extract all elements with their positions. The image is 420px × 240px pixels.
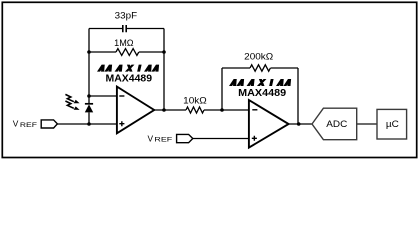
- wire cap left vertical: [88, 29, 90, 53]
- microcontroller uC box: [377, 109, 407, 139]
- svg-text:33pF: 33pF: [115, 11, 138, 21]
- wire right vertical to output node: [163, 52, 165, 110]
- capacitor C1 plates: [123, 25, 126, 32]
- svg-text:REF: REF: [154, 137, 172, 144]
- photodiode D1 anode triangle: [85, 104, 93, 112]
- wire VREF1 to noninverting input: [57, 123, 117, 125]
- node junction photodiode bottom: [87, 122, 91, 126]
- photodiode D1 cathode bar: [85, 103, 93, 105]
- node junction photodiode top: [87, 94, 91, 98]
- wire U1 output: [154, 109, 186, 111]
- node junction feedback2 input: [220, 108, 224, 112]
- wire U2 output: [289, 123, 313, 125]
- svg-text:10kΩ: 10kΩ: [183, 95, 207, 105]
- node junction U2 output: [297, 122, 301, 126]
- VREF tag 2: [177, 134, 193, 142]
- light arrow 1: [65, 94, 73, 101]
- capacitor C1 feedback wire: [89, 28, 164, 30]
- wire cap right vertical: [163, 29, 165, 53]
- wire VREF2 to U2 noninverting input: [193, 138, 249, 140]
- resistor R2 10k zigzag: [186, 107, 204, 113]
- svg-text:V: V: [148, 134, 154, 144]
- op-amp U1 minus sign: [119, 95, 124, 97]
- op-amp U2 plus sign: [252, 136, 257, 141]
- feedback2 top wire: [222, 67, 298, 69]
- svg-text:1MΩ: 1MΩ: [114, 38, 134, 48]
- feedback2 left vertical wire: [221, 68, 223, 110]
- light arrow 2: [65, 101, 73, 108]
- border frame: [2, 2, 416, 157]
- resistor R1 1M wire: [89, 51, 164, 53]
- Maxim logo U1: [97, 65, 159, 72]
- wire ADC to uC: [357, 123, 377, 125]
- wire inverting input U1: [89, 95, 117, 97]
- svg-text:REF: REF: [20, 122, 37, 129]
- node junction right of R1: [162, 50, 166, 54]
- svg-text:MAX4489: MAX4489: [238, 87, 286, 99]
- svg-text:ADC: ADC: [326, 119, 347, 130]
- op-amp U1: [117, 87, 154, 134]
- photodiode D1 bottom lead: [88, 112, 90, 124]
- photodiode D1 top lead: [88, 96, 90, 104]
- resistor R3 200k zigzag: [250, 65, 270, 71]
- op-amp U1 plus sign: [119, 121, 124, 126]
- feedback2 right vertical wire: [297, 68, 299, 124]
- node junction feedback1 output: [162, 108, 166, 112]
- ADC block: [312, 108, 357, 140]
- wire R2 to U2 inverting input: [204, 109, 249, 111]
- svg-text:V: V: [13, 119, 19, 129]
- svg-text:MAX4489: MAX4489: [106, 73, 153, 85]
- svg-text:200kΩ: 200kΩ: [244, 52, 273, 62]
- VREF tag 1: [41, 120, 57, 128]
- op-amp U2 minus sign: [252, 109, 257, 111]
- wire left vertical to inverting input: [88, 52, 90, 96]
- node junction left of R1: [87, 50, 91, 54]
- svg-text:µC: µC: [386, 119, 399, 129]
- Maxim logo U2: [229, 79, 291, 86]
- resistor R1 zigzag: [116, 49, 139, 56]
- op-amp U2: [249, 100, 289, 148]
